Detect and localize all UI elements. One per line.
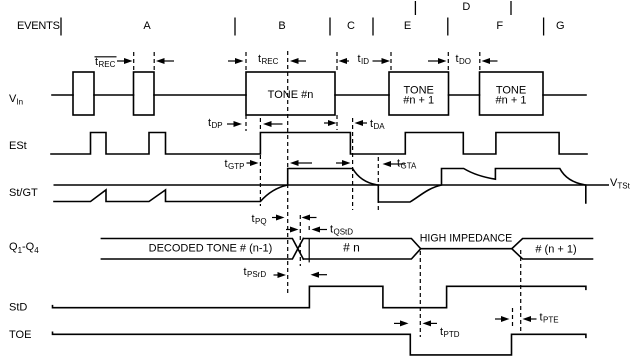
svg-text:TONE #n: TONE #n xyxy=(268,89,314,101)
svg-text:StD: StD xyxy=(9,302,27,314)
wire: arrow left at St/GT threshold cross xyxy=(290,160,299,166)
wire: arrow right to ESt-rise dashed (tGTP) xyxy=(247,162,253,164)
wire: arrow left at B/C boundary xyxy=(290,58,299,64)
svg-text:QStD: QStD xyxy=(334,228,354,237)
wire: arrow right at threshold dashed (tPSrD) xyxy=(274,274,280,276)
node TONE #n+1 box (first) xyxy=(389,72,449,115)
svg-text:DP: DP xyxy=(212,121,223,130)
svg-text:PTE: PTE xyxy=(543,316,559,325)
wire: tick C/E xyxy=(372,18,374,36)
wire: StD waveform xyxy=(53,286,586,307)
svg-text:PTD: PTD xyxy=(444,330,460,339)
wire: arrow right at TOE rise (tPTE) xyxy=(495,318,503,320)
wire: arrow right at bus X (tQStD) xyxy=(286,229,292,231)
svg-text:GTA: GTA xyxy=(401,162,418,171)
wire: St/GT waveform xyxy=(54,169,586,204)
node TONE #n+1 box (second) xyxy=(480,72,544,115)
svg-text:C: C xyxy=(347,20,355,32)
svg-text:HIGH IMPEDANCE: HIGH IMPEDANCE xyxy=(420,233,512,245)
wire: dashed marker tone-n1 left edge xyxy=(390,52,392,71)
wire: VTSt threshold line xyxy=(54,184,610,186)
wire: arrow left at StD rise (tPSrD) xyxy=(311,272,320,278)
wire: dashed marker ESt rise xyxy=(259,118,261,206)
wire: tick B/C xyxy=(329,18,331,36)
wire: arrow left at HiZ dashed (tPTD) xyxy=(423,320,432,326)
wire: arrow right at tone end (tDA) xyxy=(324,122,330,124)
svg-text:#n + 1: #n + 1 xyxy=(496,95,527,107)
wire: dashed marker TOE rise short xyxy=(512,308,514,329)
svg-text:TOE: TOE xyxy=(9,329,31,341)
svg-text:E: E xyxy=(404,20,411,32)
wire: arrow right at TOE fall (tPTD) xyxy=(394,322,402,324)
wire: Q bus tone n xyxy=(303,239,420,260)
wire: tick E/F xyxy=(447,18,449,36)
wire: dashed marker St/GT threshold recross xyxy=(377,157,379,210)
wire: arrow left at StD rise (tQStD) xyxy=(312,227,321,233)
wire: arrow right at St/GT decay start xyxy=(336,162,344,164)
wire: dashed marker bus X center xyxy=(299,215,301,266)
wire: TOE waveform xyxy=(53,332,586,355)
wire: high impedance line xyxy=(421,248,512,250)
wire: dashed marker ESt fall xyxy=(352,118,354,210)
wire: events tick after EVENTS xyxy=(60,18,62,36)
svg-text:PSrD: PSrD xyxy=(247,270,266,279)
svg-text:G: G xyxy=(556,20,565,32)
svg-text:PQ: PQ xyxy=(255,217,267,226)
wire: arrow left at tone-n1b start xyxy=(482,58,491,64)
wire: arrow left at tone-n end xyxy=(339,58,348,64)
svg-text:# n: # n xyxy=(343,241,360,255)
wire: arrow right to tone start (tDP) xyxy=(227,123,235,125)
wire: Vin burst pulse 2 xyxy=(134,72,155,115)
wire: arrow left at re-enable dashed (tPTE) xyxy=(523,316,532,322)
wire: Vin center line segments xyxy=(52,94,586,96)
wire: dashed marker pulse2 right xyxy=(153,52,155,71)
svg-text:B: B xyxy=(278,20,285,32)
wire: dashed marker bus to high impedance xyxy=(419,251,421,337)
wire: arrow right at bus change (tPQ) xyxy=(272,217,278,219)
svg-text:DA: DA xyxy=(374,122,386,131)
svg-text:F: F xyxy=(496,20,503,32)
wire: tick A/B xyxy=(234,18,236,36)
wire: arrow left at ESt rise (tDP) xyxy=(263,121,272,127)
wire: dashed marker tone-n left edge xyxy=(245,52,247,131)
wire: dashed marker StD rise xyxy=(308,226,310,232)
svg-text:EVENTS: EVENTS xyxy=(17,20,60,32)
wire: dashed marker tone-n1 right edge xyxy=(447,52,449,71)
svg-text:GTP: GTP xyxy=(228,162,244,171)
svg-text:#n + 1: #n + 1 xyxy=(403,95,434,107)
wire: arrow right to tone-n1 start xyxy=(373,60,383,62)
svg-text:REC: REC xyxy=(99,60,116,69)
svg-text:D: D xyxy=(462,1,470,13)
wire: arrow left at bus X (tPQ) xyxy=(302,215,311,221)
svg-text:St/GT: St/GT xyxy=(9,187,38,199)
wire: arrow right to tone-n1 end xyxy=(428,60,438,62)
wire: dashed marker pulse2 left xyxy=(133,52,135,71)
wire: Q bus decoded tone n-1 xyxy=(101,239,303,260)
wire: tick F/G xyxy=(543,18,545,36)
svg-text:# (n + 1): # (n + 1) xyxy=(535,244,576,256)
wire: Vin burst pulse 1 xyxy=(73,72,94,115)
wire: dashed marker tone-n right edge xyxy=(336,52,338,130)
svg-text:A: A xyxy=(143,20,151,32)
wire: dashed marker B/C boundary long xyxy=(287,51,289,294)
wire: tick D left xyxy=(414,1,416,15)
svg-text:DECODED TONE # (n-1): DECODED TONE # (n-1) xyxy=(149,243,273,255)
wire: arrow right to tone-n start xyxy=(228,60,236,62)
wire: ESt waveform xyxy=(51,133,587,155)
wire: dashed marker bus re-enable long xyxy=(520,250,522,331)
wire: arrow left to pulse2 right edge xyxy=(156,58,165,64)
wire: arrow right to pulse2 left edge xyxy=(117,60,126,62)
wire: arrow left at ESt fall (tDA) xyxy=(355,120,364,126)
svg-text:ESt: ESt xyxy=(9,140,27,152)
wire: Q bus tone n+1 xyxy=(512,239,593,260)
node TONE #n box xyxy=(246,72,335,115)
wire: dashed marker tone-n1b left edge xyxy=(479,52,481,71)
wire: tick D right xyxy=(510,1,512,15)
svg-text:REC: REC xyxy=(262,57,279,66)
wire: arrow left at threshold recross (tGTA) xyxy=(383,161,392,167)
svg-text:ID: ID xyxy=(361,57,369,66)
svg-text:DO: DO xyxy=(459,57,471,66)
